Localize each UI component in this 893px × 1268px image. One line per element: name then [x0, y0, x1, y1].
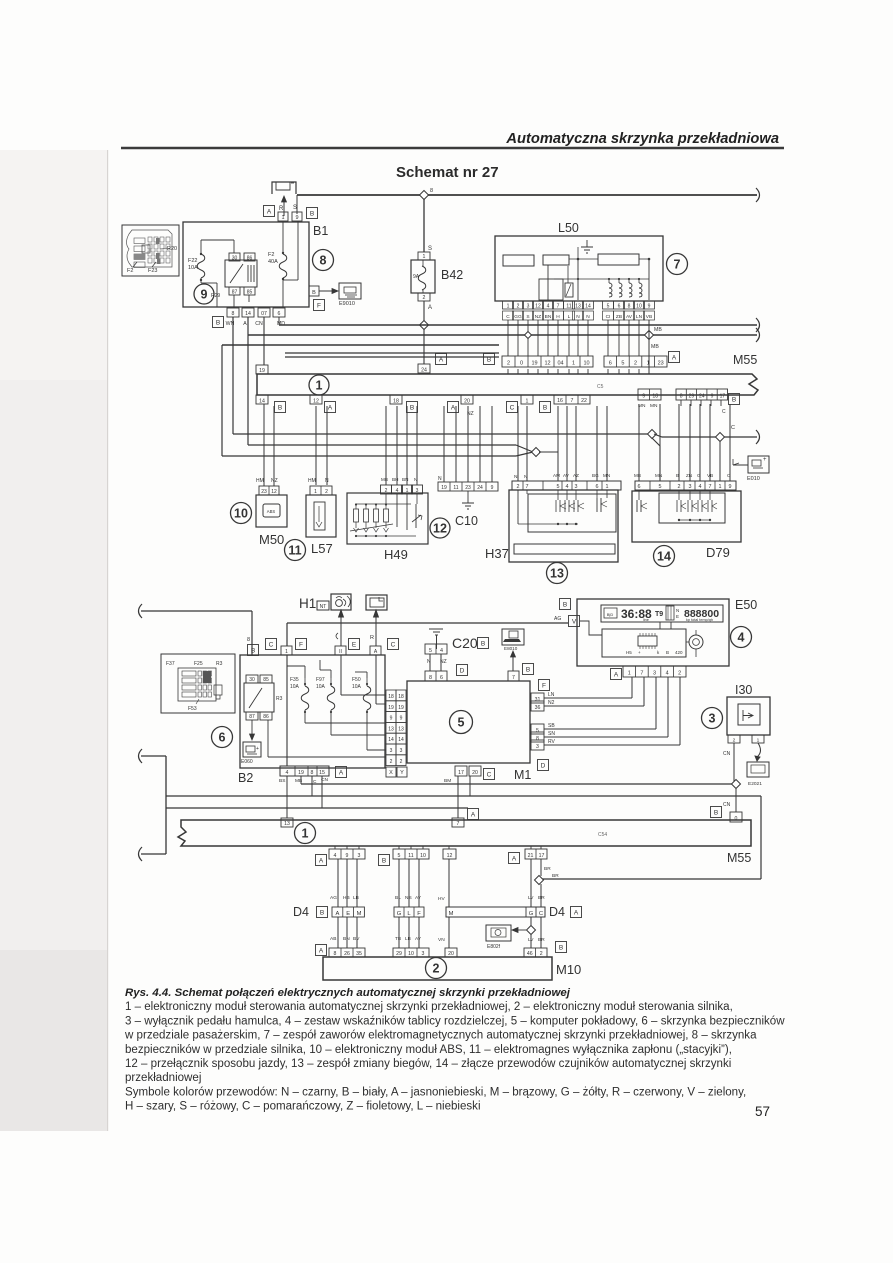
svg-text:VB: VB: [707, 473, 713, 478]
svg-text:20: 20: [448, 951, 454, 957]
svg-text:HB: HB: [343, 895, 350, 901]
svg-text:B: B: [559, 944, 563, 951]
svg-text:AM: AM: [553, 473, 560, 478]
svg-text:A: A: [439, 356, 444, 363]
svg-text:3: 3: [653, 671, 656, 677]
svg-text:8: 8: [429, 675, 432, 681]
svg-text:A: A: [267, 208, 272, 215]
svg-text:30: 30: [232, 256, 238, 262]
svg-text:B: B: [320, 909, 324, 916]
svg-text:N: N: [414, 477, 417, 482]
svg-text:D: D: [541, 762, 546, 769]
svg-text:CI: CI: [606, 314, 611, 320]
svg-text:G: G: [529, 911, 534, 917]
svg-text:BN: BN: [402, 477, 408, 482]
svg-text:57: 57: [755, 1104, 770, 1119]
svg-text:B: B: [216, 319, 220, 326]
svg-text:A: A: [574, 909, 579, 916]
svg-text:AB: AB: [330, 936, 336, 942]
svg-text:B: B: [278, 404, 282, 411]
svg-text:II: II: [339, 649, 342, 655]
svg-text:19: 19: [388, 705, 394, 711]
svg-text:F22: F22: [188, 258, 197, 264]
svg-text:29: 29: [396, 951, 402, 957]
svg-text:11: 11: [566, 304, 571, 310]
svg-text:E060: E060: [241, 759, 253, 765]
svg-text:1: 1: [314, 489, 317, 495]
svg-text:4: 4: [547, 304, 550, 310]
svg-text:3: 3: [709, 712, 716, 726]
svg-text:N: N: [524, 474, 528, 480]
svg-text:8: 8: [536, 736, 539, 742]
svg-text:L57: L57: [311, 541, 333, 556]
svg-text:F: F: [542, 682, 546, 689]
svg-text:420: 420: [675, 650, 683, 655]
svg-text:+: +: [638, 650, 641, 655]
svg-text:BR: BR: [544, 866, 551, 872]
svg-text:2: 2: [400, 759, 403, 765]
svg-text:13: 13: [550, 567, 564, 581]
svg-text:B|D: B|D: [607, 612, 614, 617]
svg-text:9: 9: [346, 853, 349, 859]
svg-text:10A: 10A: [316, 684, 326, 690]
svg-text:6: 6: [596, 484, 599, 490]
svg-text:1: 1: [757, 738, 760, 744]
svg-text:0: 0: [520, 361, 523, 367]
svg-text:AV: AV: [626, 314, 633, 320]
svg-text:LN: LN: [548, 692, 555, 698]
svg-text:1: 1: [507, 304, 510, 310]
svg-text:BR: BR: [538, 937, 545, 943]
svg-text:BS: BS: [279, 778, 285, 784]
svg-text:R3: R3: [216, 661, 223, 667]
svg-text:HM: HM: [308, 478, 316, 484]
svg-text:3: 3: [575, 484, 578, 490]
svg-text:7: 7: [571, 398, 574, 404]
svg-text:6: 6: [278, 311, 281, 317]
svg-text:B: B: [312, 290, 316, 296]
svg-text:Schemat nr 27: Schemat nr 27: [396, 164, 499, 181]
svg-text:B2: B2: [238, 771, 253, 785]
svg-text:N2: N2: [548, 700, 555, 706]
svg-text:C10: C10: [455, 514, 478, 528]
svg-text:10: 10: [234, 507, 248, 521]
svg-text:H49: H49: [384, 547, 408, 562]
svg-text:A: A: [339, 769, 344, 776]
svg-text:8: 8: [628, 304, 631, 310]
svg-text:LB: LB: [353, 895, 359, 901]
svg-text:6: 6: [440, 675, 443, 681]
svg-text:2: 2: [325, 489, 328, 495]
svg-text:B: B: [410, 404, 414, 411]
svg-text:C: C: [506, 314, 510, 320]
svg-text:4: 4: [566, 484, 569, 490]
svg-text:E: E: [676, 614, 679, 619]
svg-text:7: 7: [512, 675, 515, 681]
svg-text:A: A: [328, 404, 333, 411]
svg-text:R20: R20: [167, 246, 177, 252]
svg-text:8: 8: [430, 188, 433, 194]
svg-text:1: 1: [302, 827, 309, 841]
svg-text:X: X: [389, 770, 393, 776]
svg-text:S: S: [293, 205, 297, 211]
svg-text:+: +: [763, 457, 767, 463]
svg-text:8: 8: [334, 951, 337, 957]
svg-text:29: 29: [689, 394, 695, 400]
svg-text:F53: F53: [188, 706, 197, 712]
svg-text:18: 18: [388, 694, 394, 700]
svg-text:7: 7: [526, 484, 529, 490]
svg-text:NT: NT: [320, 604, 327, 610]
svg-text:14: 14: [398, 737, 404, 743]
svg-text:BR: BR: [538, 895, 545, 901]
svg-text:5: 5: [659, 484, 662, 490]
svg-text:A: A: [471, 811, 476, 818]
svg-text:CN: CN: [723, 802, 731, 808]
svg-text:B: B: [714, 809, 718, 816]
svg-text:M: M: [449, 911, 454, 917]
svg-text:S: S: [526, 314, 529, 320]
svg-text:26: 26: [344, 951, 350, 957]
svg-text:85: 85: [247, 290, 253, 296]
svg-text:12: 12: [544, 361, 550, 367]
svg-text:9: 9: [201, 288, 208, 302]
svg-text:2: 2: [733, 738, 736, 744]
svg-text:87: 87: [249, 714, 255, 720]
svg-text:31: 31: [535, 697, 541, 703]
svg-text:R29: R29: [211, 293, 220, 299]
svg-text:B: B: [676, 473, 679, 478]
svg-text:Y: Y: [400, 770, 404, 776]
svg-text:V: V: [572, 618, 577, 625]
svg-text:12: 12: [313, 399, 319, 405]
svg-text:A: A: [512, 855, 517, 862]
svg-text:D4: D4: [293, 905, 309, 919]
svg-text:B: B: [543, 404, 547, 411]
svg-text:6: 6: [609, 361, 612, 367]
svg-text:12: 12: [433, 522, 447, 536]
svg-text:4: 4: [699, 484, 702, 490]
svg-text:N: N: [586, 314, 590, 320]
svg-text:BH: BH: [392, 477, 398, 482]
svg-text:F50: F50: [352, 677, 361, 683]
svg-text:20: 20: [472, 770, 478, 776]
svg-text:B: B: [251, 647, 255, 654]
svg-text:AG: AG: [330, 895, 337, 901]
svg-text:2: 2: [678, 484, 681, 490]
svg-text:13: 13: [284, 821, 290, 827]
svg-text:3: 3: [536, 744, 539, 750]
svg-text:A: A: [428, 305, 432, 311]
svg-text:AY: AY: [415, 895, 422, 901]
svg-text:ZB: ZB: [616, 314, 622, 320]
svg-text:L: L: [568, 314, 571, 320]
svg-text:2: 2: [540, 951, 543, 957]
svg-text:85: 85: [263, 677, 269, 683]
svg-text:1: 1: [285, 649, 288, 655]
svg-text:M55: M55: [727, 851, 751, 865]
svg-text:E010: E010: [747, 476, 760, 482]
svg-text:2: 2: [390, 759, 393, 765]
svg-text:B: B: [481, 640, 485, 647]
svg-text:A: A: [319, 857, 324, 864]
svg-text:2: 2: [634, 361, 637, 367]
svg-text:3: 3: [422, 951, 425, 957]
svg-text:I30: I30: [735, 683, 752, 697]
svg-text:1: 1: [628, 671, 631, 677]
svg-text:07: 07: [261, 311, 267, 317]
svg-text:MB: MB: [654, 327, 662, 333]
svg-text:8: 8: [232, 311, 235, 317]
svg-text:R3: R3: [276, 696, 283, 702]
svg-text:F: F: [417, 911, 421, 917]
svg-text:12: 12: [535, 304, 541, 310]
svg-text:GG: GG: [514, 314, 522, 320]
svg-text:NZ: NZ: [535, 314, 541, 320]
svg-text:F35: F35: [290, 677, 299, 683]
svg-text:BG: BG: [592, 473, 599, 478]
svg-text:10A: 10A: [352, 684, 362, 690]
svg-text:C: C: [391, 641, 396, 648]
svg-text:4: 4: [738, 631, 745, 645]
svg-text:8: 8: [311, 770, 314, 776]
svg-text:8: 8: [247, 637, 250, 643]
svg-text:4: 4: [440, 648, 443, 654]
svg-text:E50: E50: [735, 598, 757, 612]
svg-text:AY: AY: [415, 936, 422, 942]
svg-text:H37: H37: [485, 546, 509, 561]
svg-text:E802f: E802f: [487, 944, 501, 950]
svg-text:BR: BR: [552, 873, 559, 879]
svg-text:SB: SB: [548, 723, 555, 729]
svg-text:B: B: [487, 356, 491, 363]
svg-text:kp total temp/gh: kp total temp/gh: [686, 618, 713, 622]
svg-text:1: 1: [719, 484, 722, 490]
svg-text:F37: F37: [166, 661, 175, 667]
svg-text:3: 3: [390, 748, 393, 754]
svg-text:A: A: [672, 354, 677, 361]
svg-text:11: 11: [408, 853, 413, 859]
svg-text:E9010: E9010: [339, 301, 355, 307]
svg-text:E: E: [346, 911, 350, 917]
svg-text:L50: L50: [558, 221, 579, 235]
svg-text:BM: BM: [444, 778, 451, 784]
svg-text:C: C: [269, 641, 274, 648]
svg-text:7: 7: [557, 304, 560, 310]
svg-text:H: H: [556, 314, 560, 320]
svg-text:21: 21: [528, 853, 534, 859]
svg-text:D: D: [460, 667, 465, 674]
svg-text:B: B: [732, 396, 736, 403]
svg-text:9: 9: [642, 394, 645, 400]
svg-text:2: 2: [517, 304, 520, 310]
svg-text:N: N: [514, 474, 518, 480]
svg-text:MN: MN: [650, 403, 658, 409]
svg-text:line: line: [643, 618, 649, 622]
svg-text:ZN: ZN: [686, 473, 692, 478]
svg-text:NS: NS: [405, 895, 412, 901]
svg-text:10: 10: [408, 951, 414, 957]
svg-text:N: N: [676, 608, 679, 613]
svg-text:10: 10: [636, 304, 642, 310]
svg-text:G: G: [697, 473, 701, 478]
svg-text:10A: 10A: [188, 265, 198, 271]
svg-text:4: 4: [286, 770, 289, 776]
svg-text:CN: CN: [723, 751, 731, 757]
svg-text:19: 19: [398, 705, 404, 711]
svg-text:C: C: [487, 771, 492, 778]
svg-text:F2: F2: [268, 252, 274, 258]
svg-text:ABS: ABS: [267, 509, 276, 514]
svg-text:11: 11: [288, 544, 301, 558]
svg-text:17: 17: [539, 853, 545, 859]
svg-text:B1: B1: [313, 224, 328, 238]
svg-text:14: 14: [245, 311, 251, 317]
svg-text:8: 8: [680, 394, 683, 400]
svg-text:BL: BL: [395, 895, 401, 901]
svg-text:B: B: [382, 857, 386, 864]
svg-text:MD: MD: [277, 321, 285, 327]
svg-text:BN: BN: [545, 314, 552, 320]
svg-text:18: 18: [652, 394, 658, 400]
svg-text:B42: B42: [441, 268, 463, 282]
svg-text:MB: MB: [634, 473, 641, 478]
svg-text:1: 1: [316, 379, 323, 393]
svg-text:14: 14: [585, 304, 591, 310]
svg-text:12 – przełącznik sposobu jazdy: 12 – przełącznik sposobu jazdy, 13 – zes…: [125, 1058, 731, 1070]
svg-text:5: 5: [621, 361, 624, 367]
svg-text:C: C: [510, 404, 515, 411]
svg-text:C5: C5: [597, 384, 604, 390]
svg-text:9: 9: [295, 215, 298, 221]
svg-text:E2021: E2021: [748, 781, 762, 787]
svg-text:87: 87: [232, 290, 238, 296]
svg-text:RV: RV: [548, 739, 556, 745]
svg-text:A: A: [335, 911, 339, 917]
svg-text:CN: CN: [255, 321, 263, 327]
svg-text:TB: TB: [395, 936, 401, 942]
svg-text:F25: F25: [194, 661, 203, 667]
svg-text:M50: M50: [259, 532, 284, 547]
svg-text:Symbole kolorów przewodów: N –: Symbole kolorów przewodów: N – czarny, B…: [125, 1086, 746, 1098]
svg-text:12: 12: [447, 853, 453, 859]
svg-text:13: 13: [575, 304, 581, 310]
svg-text:13: 13: [388, 726, 394, 732]
svg-text:A: A: [614, 671, 619, 678]
svg-text:A: A: [319, 947, 324, 954]
svg-text:10A: 10A: [290, 684, 300, 690]
svg-text:1: 1: [572, 361, 575, 367]
svg-text:G: G: [397, 911, 402, 917]
svg-text:LN: LN: [636, 314, 643, 320]
svg-text:04: 04: [557, 361, 563, 367]
svg-text:1: 1: [423, 254, 426, 260]
svg-text:10: 10: [420, 853, 426, 859]
svg-text:6: 6: [219, 731, 226, 745]
svg-text:AG: AG: [554, 616, 561, 622]
svg-text:23: 23: [465, 485, 471, 491]
svg-text:VN: VN: [438, 937, 445, 943]
svg-text:15: 15: [319, 770, 325, 776]
svg-text:18: 18: [393, 399, 399, 405]
svg-text:H1: H1: [299, 596, 316, 611]
svg-text:7: 7: [674, 258, 681, 272]
svg-text:14: 14: [259, 399, 265, 405]
svg-text:86: 86: [247, 256, 253, 262]
svg-text:0: 0: [735, 816, 738, 822]
svg-text:NZ: NZ: [271, 478, 278, 484]
svg-text:M10: M10: [556, 962, 581, 977]
svg-text:7: 7: [640, 671, 643, 677]
svg-text:9: 9: [400, 716, 403, 722]
svg-text:S: S: [428, 246, 432, 252]
svg-text:35: 35: [356, 951, 362, 957]
svg-text:1: 1: [281, 215, 284, 221]
svg-text:9: 9: [729, 484, 732, 490]
svg-text:5: 5: [536, 728, 539, 734]
svg-text:16: 16: [557, 398, 563, 404]
svg-text:24: 24: [477, 485, 483, 491]
svg-text:F23: F23: [148, 268, 157, 274]
svg-text:F: F: [299, 641, 303, 648]
svg-text:46: 46: [527, 951, 533, 957]
svg-text:MB: MB: [651, 344, 659, 350]
svg-text:40A: 40A: [268, 259, 278, 265]
svg-text:5: 5: [429, 648, 432, 654]
svg-text:T9: T9: [655, 611, 663, 618]
svg-text:11: 11: [453, 485, 458, 491]
svg-text:F97: F97: [316, 677, 325, 683]
svg-text:B: B: [666, 650, 669, 655]
svg-text:19: 19: [259, 368, 265, 374]
svg-text:3: 3: [358, 853, 361, 859]
svg-text:5: 5: [607, 304, 610, 310]
svg-text:1 – elektroniczny moduł sterow: 1 – elektroniczny moduł sterowania autom…: [125, 1001, 733, 1013]
svg-text:C20: C20: [452, 635, 478, 651]
svg-text:3 – wyłącznik pedału hamulca,: 3 – wyłącznik pedału hamulca, 4 – zestaw…: [125, 1015, 785, 1027]
svg-text:86: 86: [263, 714, 269, 720]
svg-text:4: 4: [334, 853, 337, 859]
svg-text:C: C: [722, 409, 726, 415]
svg-text:AZ: AZ: [573, 473, 579, 478]
svg-text:14: 14: [388, 737, 394, 743]
svg-text:36: 36: [535, 705, 541, 711]
svg-text:przekładniowej: przekładniowej: [125, 1072, 201, 1084]
svg-text:LV: LV: [528, 895, 534, 901]
svg-text:B: B: [310, 210, 314, 217]
svg-text:AV: AV: [563, 473, 570, 478]
svg-text:9: 9: [648, 304, 651, 310]
svg-text:6: 6: [618, 304, 621, 310]
svg-text:12: 12: [271, 489, 277, 495]
svg-text:14: 14: [657, 550, 671, 564]
svg-text:+: +: [256, 746, 259, 752]
svg-text:4: 4: [666, 671, 669, 677]
svg-text:3: 3: [689, 484, 692, 490]
svg-text:M1: M1: [514, 768, 531, 782]
svg-text:20: 20: [464, 399, 470, 405]
svg-text:C: C: [539, 911, 543, 917]
svg-text:bezpieczników w przedziale sil: bezpieczników w przedziale silnika, 10 –…: [125, 1044, 732, 1056]
svg-text:MN: MN: [603, 473, 610, 478]
svg-text:23: 23: [658, 361, 664, 367]
svg-text:3: 3: [400, 748, 403, 754]
svg-text:VB: VB: [646, 314, 652, 320]
svg-text:F2: F2: [127, 268, 133, 274]
svg-text:30: 30: [249, 677, 255, 683]
svg-text:H – szary, S – różowy, C – pom: H – szary, S – różowy, C – pomarańczowy,…: [125, 1101, 481, 1113]
svg-text:24: 24: [699, 394, 705, 400]
